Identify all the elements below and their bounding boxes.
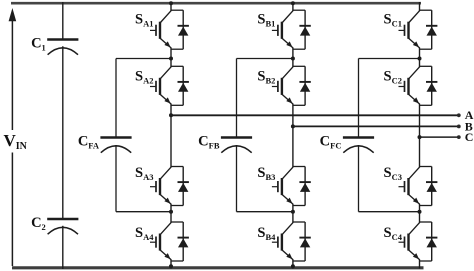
capacitor C2 xyxy=(31,215,78,234)
svg-text:SA3: SA3 xyxy=(135,165,153,182)
capacitor CFA xyxy=(78,134,132,153)
svg-text:SB4: SB4 xyxy=(257,225,276,242)
node: phase B lower flying-cap tap xyxy=(291,210,295,214)
node: phase B bottom-bus junction xyxy=(291,264,295,268)
svg-text:SC2: SC2 xyxy=(384,68,402,85)
node: phase A upper flying-cap tap xyxy=(169,57,173,61)
wire: phase B switch-chain vertical segments xyxy=(292,2,294,269)
wire: DC-link capacitor leg xyxy=(62,2,64,269)
wire: output line phase C xyxy=(420,136,459,138)
switch SB2: IGBT with antiparallel diode xyxy=(257,66,310,105)
svg-text:SA2: SA2 xyxy=(135,68,153,85)
switch SA1: IGBT with antiparallel diode xyxy=(135,10,189,49)
node: phase A output junction xyxy=(169,113,173,117)
svg-text:SA4: SA4 xyxy=(135,225,154,242)
svg-text:CFA: CFA xyxy=(78,134,100,151)
node: phase A top-bus junction xyxy=(169,1,173,5)
switch SC3: IGBT with antiparallel diode xyxy=(384,165,438,206)
node: phase C output junction xyxy=(418,135,422,139)
node: phase B upper flying-cap tap xyxy=(291,57,295,61)
svg-text:SB2: SB2 xyxy=(257,68,275,85)
wire: phase C flying-capacitor branch xyxy=(359,59,420,212)
Vin input voltage arrow xyxy=(9,8,17,266)
capacitor CFB xyxy=(198,134,252,153)
switch SB1: IGBT with antiparallel diode xyxy=(257,10,310,49)
node: phase B top-bus junction xyxy=(291,1,295,5)
wire: top DC bus xyxy=(11,2,421,5)
switch SB3: IGBT with antiparallel diode xyxy=(257,165,310,206)
node: phase C lower flying-cap tap xyxy=(418,210,422,214)
node: output terminal A xyxy=(457,113,461,117)
svg-text:SB3: SB3 xyxy=(257,165,275,182)
wire: output line phase A xyxy=(171,114,459,116)
switch SC1: IGBT with antiparallel diode xyxy=(384,10,438,49)
capacitor CFC xyxy=(320,134,374,153)
wire: phase C switch-chain vertical segments xyxy=(419,2,421,269)
node: phase A lower flying-cap tap xyxy=(169,210,173,214)
svg-text:CFC: CFC xyxy=(320,134,342,151)
svg-text:SA1: SA1 xyxy=(135,12,153,29)
svg-text:SC1: SC1 xyxy=(384,12,402,29)
switch SB4: IGBT with antiparallel diode xyxy=(257,222,310,261)
wire: phase A flying-capacitor branch xyxy=(116,59,171,212)
node: phase B output junction xyxy=(291,124,295,128)
svg-text:CFB: CFB xyxy=(198,134,220,151)
node: phase A bottom-bus junction xyxy=(169,264,173,268)
switch SA2: IGBT with antiparallel diode xyxy=(135,66,189,105)
svg-text:SC3: SC3 xyxy=(384,165,402,182)
node: phase C upper flying-cap tap xyxy=(418,57,422,61)
switch SC2: IGBT with antiparallel diode xyxy=(384,66,438,105)
switch SA4: IGBT with antiparallel diode xyxy=(135,222,189,261)
wire: phase B flying-capacitor branch xyxy=(237,59,293,212)
svg-text:C2: C2 xyxy=(31,215,46,232)
capacitor C1 xyxy=(31,36,78,55)
svg-text:VIN: VIN xyxy=(4,131,28,152)
svg-text:SC4: SC4 xyxy=(384,225,403,242)
svg-text:C1: C1 xyxy=(31,36,46,53)
node: output terminal B xyxy=(457,125,461,129)
wire: phase A switch-chain vertical segments xyxy=(170,2,172,269)
node: output terminal C xyxy=(457,135,461,139)
wire: output line phase B xyxy=(293,125,459,127)
switch SC4: IGBT with antiparallel diode xyxy=(384,222,438,261)
svg-text:C: C xyxy=(465,130,474,144)
wire: bottom DC bus xyxy=(12,266,424,269)
switch SA3: IGBT with antiparallel diode xyxy=(135,165,189,206)
svg-text:SB1: SB1 xyxy=(257,12,275,29)
